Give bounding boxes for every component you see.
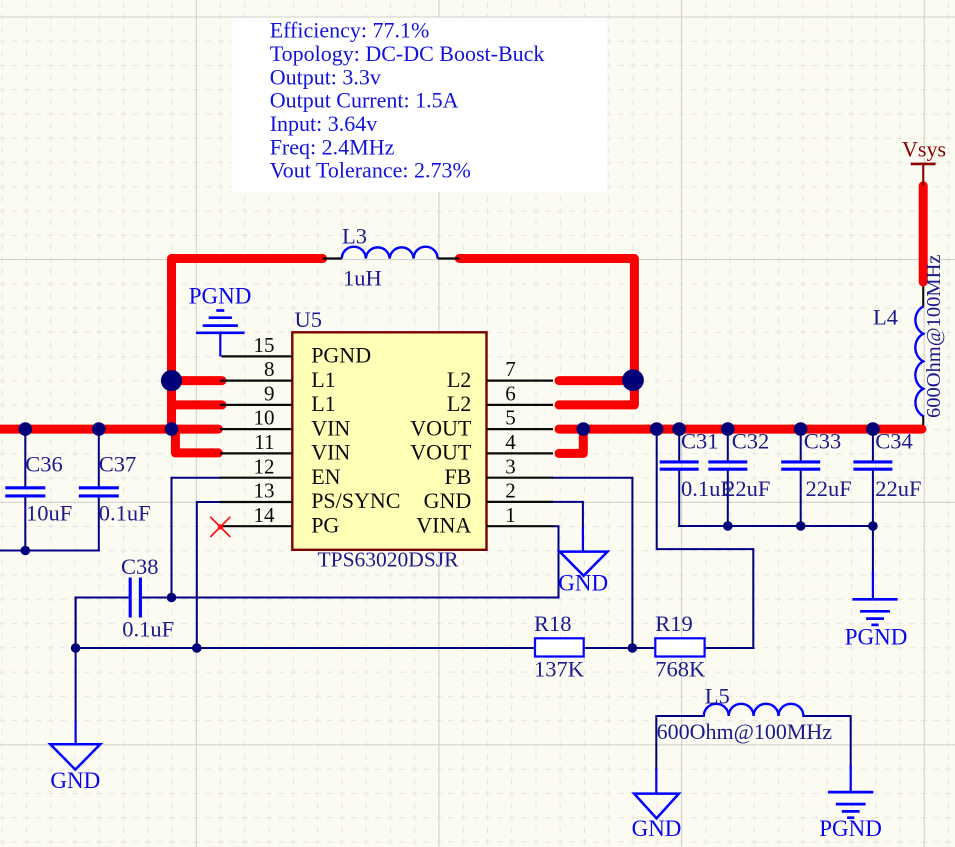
svg-text:U5: U5 [295,307,323,332]
svg-text:C36: C36 [25,451,63,476]
pin 5 (VOUT) right wire [487,428,554,430]
svg-text:VINA: VINA [416,512,471,537]
resistor R18 [535,638,584,656]
wire C31 bottom [678,471,680,526]
wire R18 feedback run [76,647,535,649]
junction cap rail / C34 [868,521,878,531]
svg-text:3: 3 [505,454,516,478]
info text block background [232,18,607,193]
svg-text:Output: 3.3v: Output: 3.3v [270,64,381,89]
wire L1 stub pin9 [172,400,223,409]
pin 1 (VINA) right wire [487,525,554,527]
wire Vsys thick vertical [919,186,928,282]
wire left gnd rail [0,550,99,552]
op-amp U5 TPS63020DSJR body [292,332,486,550]
svg-text:GND: GND [424,488,472,513]
pin 14 (PG) left wire [220,525,292,527]
capacitor C31 [660,460,699,463]
pin 8 (L1) left wire [220,380,292,382]
junction gnd run / PS-SYNC [192,643,202,653]
ground PGND symbol L5 right [828,765,873,818]
inductor L3 [323,247,460,259]
svg-text:9: 9 [264,382,275,406]
svg-text:L1: L1 [311,367,335,392]
svg-text:VIN: VIN [311,440,350,465]
svg-text:L4: L4 [873,305,898,330]
wire L2 stub pin7 [559,376,634,385]
svg-text:10uF: 10uF [26,500,72,525]
wire L5 right [803,716,850,767]
svg-text:600Ohm@100MHz: 600Ohm@100MHz [657,719,833,744]
junction VOUT / C34 [866,422,880,436]
svg-text:PG: PG [311,512,339,537]
capacitor C36 [5,486,45,489]
svg-text:GND: GND [50,768,100,793]
wire L1 net top-left thick [172,259,323,430]
svg-text:GND: GND [632,816,682,841]
svg-text:7: 7 [505,357,516,381]
svg-text:Topology: DC-DC Boost-Buck: Topology: DC-DC Boost-Buck [270,41,545,66]
svg-text:L2: L2 [447,391,471,416]
ground GND symbol at pin2 [560,527,608,576]
svg-text:Vsys: Vsys [902,136,946,161]
svg-text:C32: C32 [732,428,770,453]
wire C34 bottom [872,471,874,526]
wire C32 bottom [727,471,729,526]
wire C36 top from VIN bus [24,429,26,486]
wire EN net vertical from pin12 [172,478,221,598]
junction cap rail / C33 [796,521,806,531]
inductor L5 [704,704,804,716]
wire GND net from pin2 [553,502,583,528]
pin 15 (PGND) left wire [222,355,293,357]
capacitor C37 [79,486,119,489]
wire PS/SYNC net vertical from pin13 [197,502,220,648]
svg-text:VIN: VIN [311,415,350,440]
ground GND symbol bottom-left [50,721,100,770]
pin 11 (VIN) left wire [220,452,292,454]
svg-text:L5: L5 [705,683,730,708]
svg-text:FB: FB [444,464,471,489]
svg-text:0.1uF: 0.1uF [99,500,151,525]
svg-text:C37: C37 [99,451,137,476]
svg-text:TPS63020DSJR: TPS63020DSJR [318,548,460,572]
junction VOUT / C31 [672,422,686,436]
resistor R19 [655,638,704,656]
capacitor C38 horizontal [130,578,140,618]
wire C33 bottom [800,471,802,526]
svg-text:VOUT: VOUT [410,415,472,440]
wire VOUT bus [559,425,922,434]
pin 9 (L1) left wire [220,404,292,406]
svg-text:137K: 137K [534,657,585,682]
svg-text:600Ohm@100MHz: 600Ohm@100MHz [923,254,945,418]
wire R19 right to VOUT sense [705,647,754,649]
wire C38 right segment to VINA [142,597,559,599]
wire L2 net top-right thick [459,259,634,405]
svg-text:10: 10 [254,406,275,430]
svg-text:PGND: PGND [819,816,882,841]
pin 12 (EN) left wire [220,477,292,479]
wire C34 top [872,429,874,460]
svg-text:14: 14 [254,503,276,527]
wire C33 top [800,429,802,460]
junction L1 big left [161,370,182,391]
node Vsys net label [902,136,946,186]
wire bottom GND run to R18 [75,598,77,722]
wire L1 stub pin8 [172,376,223,385]
junction VIN bus / C36 [19,422,33,436]
svg-text:768K: 768K [655,657,706,682]
svg-text:22uF: 22uF [875,476,921,501]
wire L4 bottom black [922,416,924,429]
svg-text:L2: L2 [447,367,471,392]
svg-text:L1: L1 [311,391,335,416]
svg-text:11: 11 [254,430,274,454]
svg-text:GND: GND [558,570,608,595]
pin 6 (L2) right wire [487,404,554,406]
junction gnd run / C38 left [71,643,81,653]
junction C38 / EN [167,593,177,603]
wire L4 top black [922,283,924,307]
wire L5 left [656,716,704,769]
pin 2 (GND) right wire [487,501,554,503]
svg-text:C34: C34 [875,428,913,453]
svg-text:PGND: PGND [311,343,371,368]
junction gnd rail / C36 bottom [21,546,31,556]
svg-text:C33: C33 [804,428,842,453]
pin 13 (PS/SYNC) left wire [220,501,292,503]
svg-text:C38: C38 [121,554,159,579]
wire C32 top [727,429,729,460]
junction VOUT / sense [650,422,664,436]
svg-text:PGND: PGND [189,284,252,309]
pin 3 (FB) right wire [487,477,554,479]
wire VIN hook pin11 [175,429,218,453]
ground GND symbol L5 left [634,768,679,818]
wire FB net from pin3 [553,478,632,648]
wire C36 bottom to gnd rail [24,497,26,550]
svg-text:1uH: 1uH [343,266,382,291]
svg-text:1: 1 [505,503,516,527]
svg-text:Efficiency: 77.1%: Efficiency: 77.1% [270,18,430,43]
svg-text:C31: C31 [681,428,719,453]
junction cap rail / C32 [723,521,733,531]
wire cap gnd rail [679,525,873,527]
ground PGND power symbol top-left [196,311,244,357]
ground PGND symbol right (C34) [852,571,897,625]
capacitor C33 [781,460,820,463]
svg-text:15: 15 [254,333,275,357]
pin 10 (VIN) left wire [220,428,292,430]
wire C38 left segment [76,598,129,649]
wire C37 bottom to gnd rail [98,497,100,550]
capacitor C34 [853,460,892,463]
junction VIN bus / L1 riser [165,422,179,436]
svg-text:13: 13 [254,479,275,503]
svg-text:R18: R18 [534,611,572,636]
wire VINA vertical from pin1 [553,526,559,597]
svg-text:PGND: PGND [845,624,908,649]
junction VOUT / pin4 hook [577,422,591,436]
svg-text:Freq: 2.4MHz: Freq: 2.4MHz [270,134,395,159]
wire C31 top [678,429,680,460]
svg-text:4: 4 [505,430,516,454]
svg-text:22uF: 22uF [806,476,852,501]
junction VIN bus / C37 [92,422,106,436]
pin 4 (VOUT) right wire [487,452,554,454]
wire C34 down to PGND [872,526,874,574]
no-connect X on pin 14 [210,517,230,537]
svg-text:R19: R19 [655,611,693,636]
inductor L4 [915,306,923,416]
svg-text:8: 8 [264,357,275,381]
wire VOUT sense down-over-down [657,429,754,648]
junction VOUT / C33 [794,422,808,436]
pin 7 (L2) right wire [487,380,554,382]
junction R18-R19 / FB [628,643,638,653]
svg-text:5: 5 [505,406,516,430]
svg-text:12: 12 [254,454,275,478]
svg-text:L3: L3 [342,223,367,248]
svg-text:Input: 3.64v: Input: 3.64v [270,111,378,136]
info text [270,18,545,183]
svg-text:VOUT: VOUT [410,440,472,465]
junction VOUT / C32 [721,422,735,436]
svg-text:2: 2 [505,479,516,503]
svg-text:0.1uF: 0.1uF [122,617,174,642]
wire C37 top from VIN bus [98,429,100,486]
svg-text:Vout Tolerance: 2.73%: Vout Tolerance: 2.73% [270,158,471,183]
capacitor C32 [708,460,747,463]
svg-text:Output Current: 1.5A: Output Current: 1.5A [270,88,459,113]
wire VIN bus left [0,425,218,434]
svg-text:6: 6 [505,382,516,406]
svg-text:EN: EN [311,464,340,489]
svg-text:PS/SYNC: PS/SYNC [311,488,400,513]
wire VOUT hook pin4 [559,429,583,453]
wire R18-R19 link [584,647,656,649]
svg-text:22uF: 22uF [724,476,770,501]
junction L2 big right [622,369,644,391]
